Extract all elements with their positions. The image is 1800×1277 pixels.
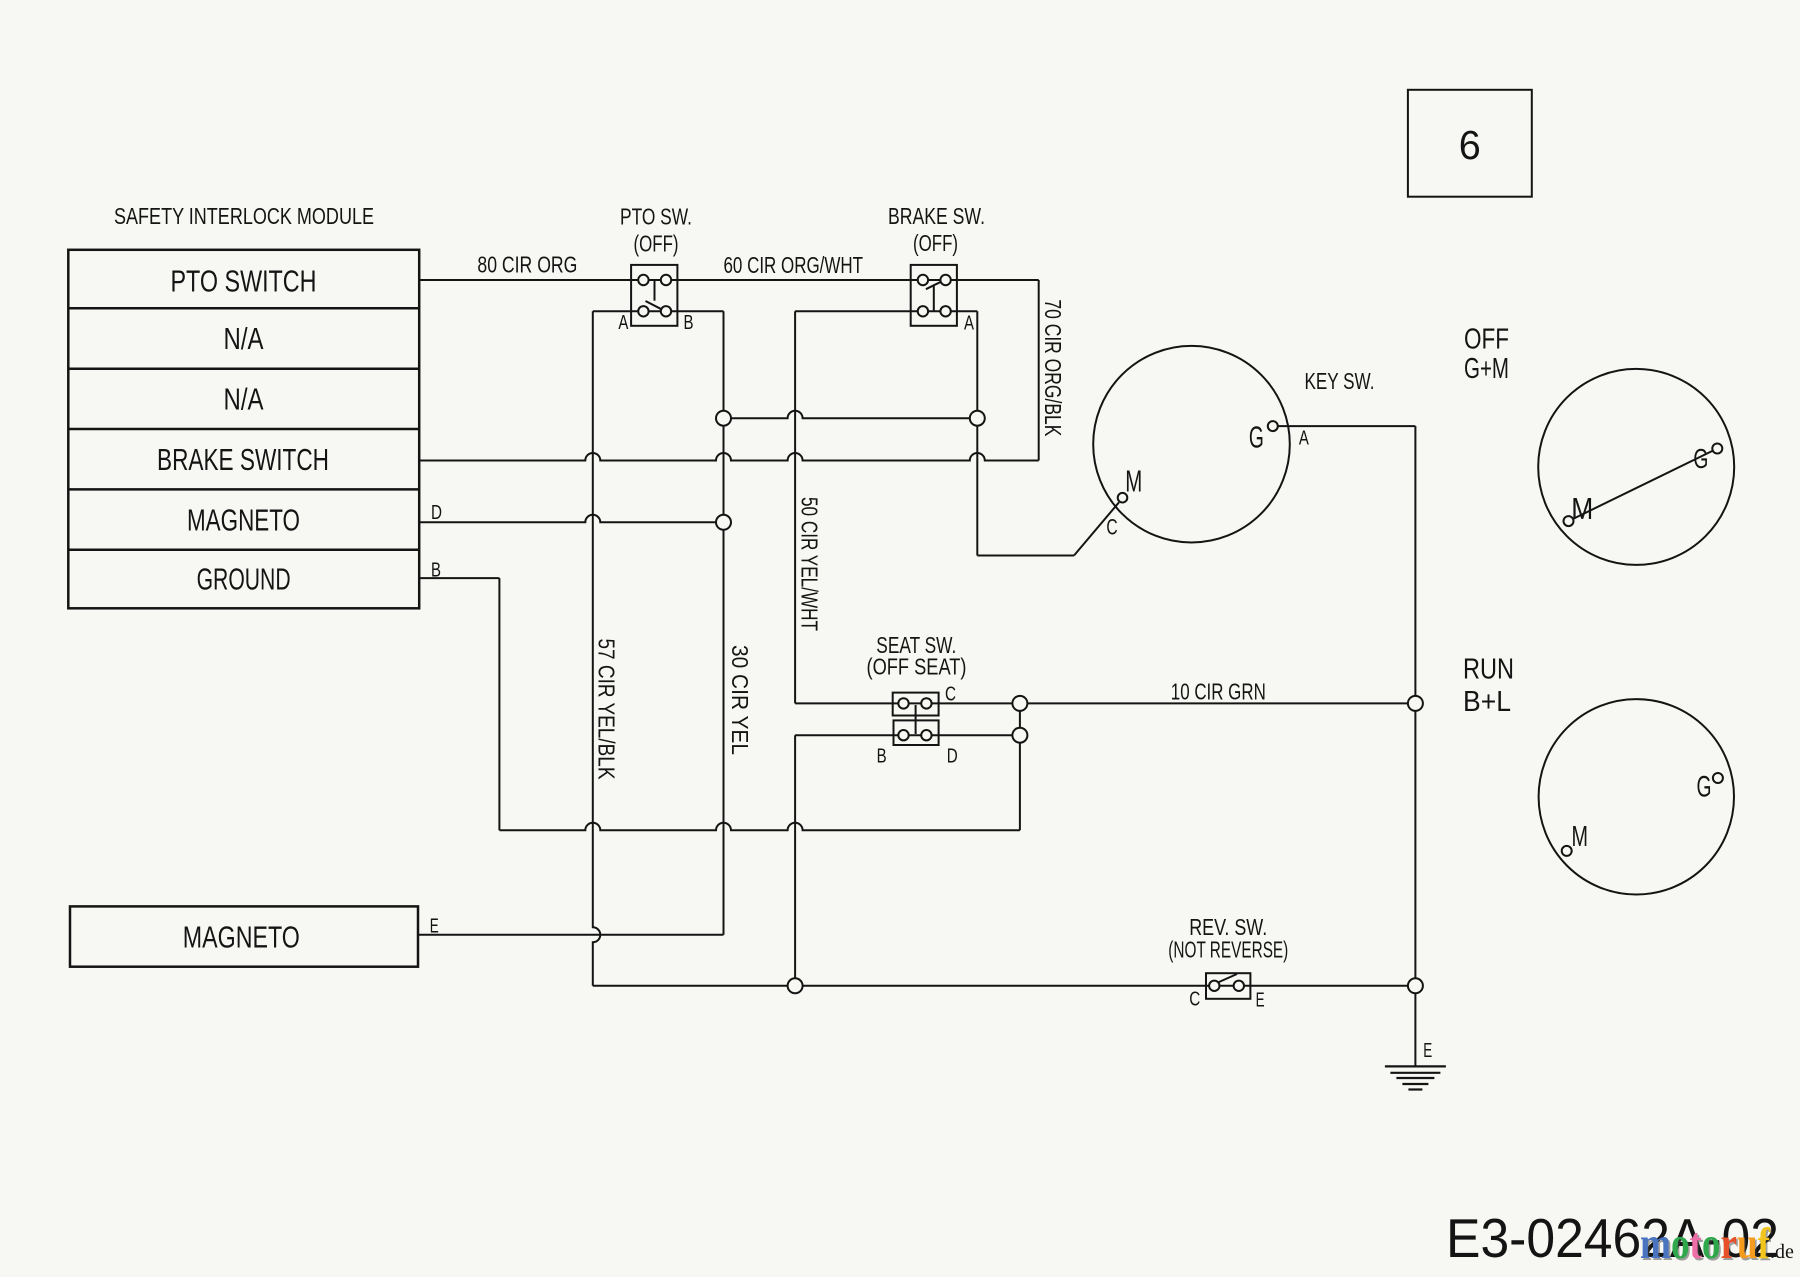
svg-text:60 CIR ORG/WHT: 60 CIR ORG/WHT [724,252,864,278]
svg-text:A: A [1299,427,1309,450]
svg-text:N/A: N/A [224,321,264,356]
svg-text:B: B [431,558,441,581]
svg-text:PTO SW.: PTO SW. [620,204,692,230]
svg-text:(NOT REVERSE): (NOT REVERSE) [1168,937,1288,963]
svg-text:C: C [1189,987,1200,1010]
svg-text:80 CIR ORG: 80 CIR ORG [477,252,577,278]
svg-text:A: A [964,311,974,334]
svg-text:BRAKE SWITCH: BRAKE SWITCH [157,442,329,477]
svg-text:G: G [1693,443,1708,474]
svg-text:E: E [1423,1039,1432,1062]
svg-text:M: M [1125,464,1142,499]
svg-text:B: B [684,311,694,334]
svg-text:E: E [430,914,439,937]
svg-text:E: E [1256,988,1265,1011]
svg-text:BRAKE SW.: BRAKE SW. [888,203,985,229]
svg-text:30 CIR YEL: 30 CIR YEL [727,645,753,755]
svg-text:GROUND: GROUND [197,562,291,597]
svg-text:M: M [1571,491,1593,526]
svg-text:motoruf: motoruf [1640,1219,1771,1268]
svg-text:G: G [1697,771,1712,804]
svg-text:57 CIR YEL/BLK: 57 CIR YEL/BLK [594,639,620,781]
svg-text:MAGNETO: MAGNETO [183,920,300,955]
svg-text:M: M [1572,821,1589,853]
svg-text:70 CIR ORG/BLK: 70 CIR ORG/BLK [1040,299,1066,436]
svg-text:G: G [1249,419,1264,454]
svg-text:OFF: OFF [1464,324,1509,356]
svg-text:6: 6 [1459,122,1481,168]
svg-text:RUN: RUN [1463,653,1514,685]
svg-text:MAGNETO: MAGNETO [187,502,300,537]
svg-text:C: C [945,682,956,705]
svg-text:C: C [1106,514,1117,539]
svg-text:A: A [618,311,628,334]
svg-text:10 CIR GRN: 10 CIR GRN [1171,678,1266,704]
svg-text:B: B [877,745,887,768]
svg-text:SAFETY INTERLOCK MODULE: SAFETY INTERLOCK MODULE [114,203,374,229]
svg-text:PTO SWITCH: PTO SWITCH [171,263,317,298]
svg-text:(OFF): (OFF) [634,231,679,257]
svg-text:D: D [431,501,442,524]
svg-text:N/A: N/A [224,382,264,417]
svg-text:.de: .de [1770,1241,1794,1263]
svg-text:50 CIR YEL/WHT: 50 CIR YEL/WHT [797,497,823,631]
svg-text:G+M: G+M [1464,353,1509,385]
svg-text:D: D [947,745,958,768]
svg-text:(OFF): (OFF) [913,230,958,256]
svg-text:KEY SW.: KEY SW. [1305,368,1375,394]
svg-text:B+L: B+L [1463,686,1511,718]
svg-text:(OFF SEAT): (OFF SEAT) [867,653,967,679]
